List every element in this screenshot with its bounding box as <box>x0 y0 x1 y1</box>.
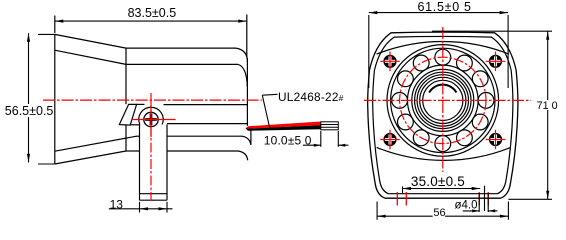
svg-text:13: 13 <box>110 197 124 211</box>
svg-text:71 0: 71 0 <box>537 100 558 112</box>
svg-text:35.0±0.5: 35.0±0.5 <box>411 174 465 189</box>
svg-text:10.0±5 0: 10.0±5 0 <box>264 133 312 147</box>
svg-text:56: 56 <box>433 207 445 219</box>
svg-text:83.5±0.5: 83.5±0.5 <box>128 6 177 20</box>
svg-text:56.5±0.5: 56.5±0.5 <box>5 104 54 118</box>
svg-text:61.5±0 5: 61.5±0 5 <box>418 0 472 14</box>
svg-text:UL2468-22#: UL2468-22# <box>278 90 344 104</box>
